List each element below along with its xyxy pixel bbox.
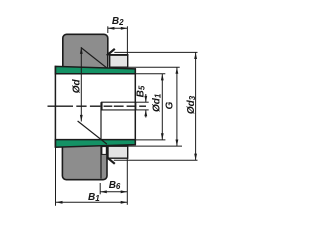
svg-text:B2: B2 [112, 16, 124, 27]
svg-text:Ød3: Ød3 [186, 95, 197, 114]
svg-text:B6: B6 [109, 180, 121, 191]
svg-text:B1: B1 [88, 192, 100, 203]
svg-text:G: G [164, 102, 175, 110]
svg-text:B5: B5 [136, 85, 147, 97]
svg-text:Ød: Ød [72, 79, 83, 94]
svg-text:Ød1: Ød1 [152, 93, 163, 112]
